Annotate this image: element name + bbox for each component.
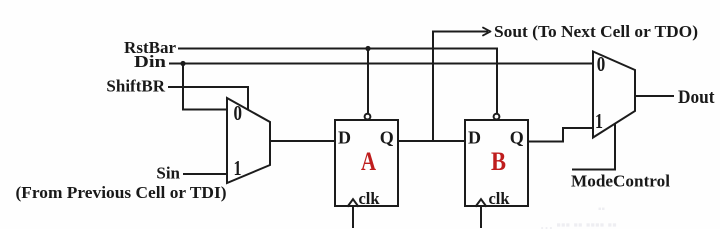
svg-text:clk: clk xyxy=(488,189,510,208)
label Sout (To Next Cell or TDO) xyxy=(494,22,698,41)
svg-text:1: 1 xyxy=(234,156,242,180)
mux M1 (input multiplexer) xyxy=(227,98,270,183)
svg-text:D: D xyxy=(338,128,351,148)
mux M2 (output multiplexer) xyxy=(593,52,635,138)
svg-text:B: B xyxy=(491,147,506,176)
label ModeControl xyxy=(571,172,670,191)
wire FF B Q to mux M2 input 1 xyxy=(528,128,593,142)
wire Dout xyxy=(635,95,673,97)
wire RstBar branch to FF A reset bubble xyxy=(367,49,369,114)
label ShiftBR xyxy=(106,77,165,96)
svg-text:Q: Q xyxy=(510,128,524,148)
wire RstBar xyxy=(179,49,497,114)
FF A clock wedge xyxy=(348,199,358,206)
wire M1 output to FF A D input xyxy=(270,140,335,142)
svg-text:1: 1 xyxy=(595,109,603,133)
svg-text:ShiftBR: ShiftBR xyxy=(106,77,165,96)
svg-text:… ▪▪▪ ▪▪ ▪▪▪▪ ▪▪: … ▪▪▪ ▪▪ ▪▪▪▪ ▪▪ xyxy=(540,217,617,229)
label (From Previous Cell or TDI) xyxy=(16,183,227,202)
label Din xyxy=(134,52,167,71)
wire Din branch to mux M1 input 0 xyxy=(183,64,227,110)
svg-text:Dout: Dout xyxy=(678,88,715,108)
svg-text:0: 0 xyxy=(233,101,242,125)
pin label 1 (mux M1 input 1) xyxy=(234,156,242,180)
pin label 1 (mux M2 input 1) xyxy=(595,109,603,133)
label Dout xyxy=(678,88,715,108)
flip-flop B body xyxy=(465,120,528,206)
wire ModeControl to mux M2 select xyxy=(573,125,615,170)
FF B reset bubble xyxy=(494,114,500,120)
flip-flop A body xyxy=(335,120,398,206)
junction Din node xyxy=(180,61,185,66)
pin label clk (FF A) xyxy=(358,189,380,208)
wire FF A clock xyxy=(352,206,354,227)
svg-text:Sin: Sin xyxy=(156,164,180,183)
svg-text:Din: Din xyxy=(134,52,167,71)
Sout arrowhead xyxy=(483,28,491,36)
wire ShiftBR to mux M1 select xyxy=(169,87,248,109)
pin label D (FF A) xyxy=(338,128,351,148)
svg-text:D: D xyxy=(468,128,481,148)
wire FF A Q to FF B D xyxy=(398,140,465,142)
pin label Q (FF B) xyxy=(510,128,524,148)
label Sin xyxy=(156,164,180,183)
pin label 0 (mux M2 input 0) xyxy=(597,52,606,76)
svg-text:A: A xyxy=(361,147,376,176)
svg-text:ModeControl: ModeControl xyxy=(571,172,670,191)
svg-text:0: 0 xyxy=(597,52,606,76)
wire FF B clock xyxy=(480,206,482,227)
label A (FF A name) xyxy=(361,147,376,176)
wire Din xyxy=(170,63,593,65)
svg-text:Sout (To Next Cell or TDO): Sout (To Next Cell or TDO) xyxy=(494,22,698,41)
svg-text:Q: Q xyxy=(380,128,394,148)
pin label D (FF B) xyxy=(468,128,481,148)
junction RstBar / FF A reset xyxy=(365,46,370,51)
svg-text:▪▪: ▪▪ xyxy=(598,204,606,215)
pin label Q (FF A) xyxy=(380,128,394,148)
svg-text:clk: clk xyxy=(358,189,380,208)
FF A reset bubble xyxy=(365,114,371,120)
FF B clock wedge xyxy=(476,199,486,206)
wire Sin xyxy=(184,173,227,175)
pin label 0 (mux M1 input 0) xyxy=(233,101,242,125)
label B (FF B name) xyxy=(491,147,506,176)
wire Sout tap xyxy=(433,32,487,142)
svg-text:(From Previous Cell or TDI): (From Previous Cell or TDI) xyxy=(16,183,227,202)
pin label clk (FF B) xyxy=(488,189,510,208)
label RstBar xyxy=(124,38,176,57)
